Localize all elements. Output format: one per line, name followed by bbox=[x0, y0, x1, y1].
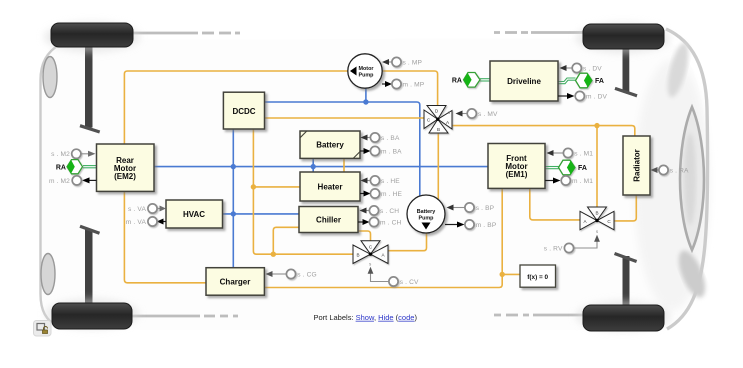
junction orange radiator line bbox=[594, 123, 599, 128]
svg-text:Radiator: Radiator bbox=[633, 149, 642, 181]
wire orange DCDC to 4-way valve bbox=[265, 117, 425, 119]
port RA rear hexagon bbox=[56, 160, 83, 174]
svg-text:s . BP: s . BP bbox=[476, 205, 495, 212]
port s.RA bbox=[651, 165, 690, 174]
suspension strut BL bbox=[80, 226, 100, 303]
port s.BA bbox=[361, 133, 400, 142]
svg-text:Pump: Pump bbox=[419, 216, 435, 222]
svg-text:Motor: Motor bbox=[359, 66, 375, 72]
svg-text:s . MP: s . MP bbox=[403, 60, 423, 67]
wire orange branch down to right valve bbox=[596, 126, 598, 207]
wire blue HVAC to chiller bbox=[223, 213, 299, 215]
svg-text:m . CH: m . CH bbox=[380, 220, 402, 227]
svg-text:m . MP: m . MP bbox=[403, 82, 425, 89]
rear taillight lower bbox=[41, 254, 55, 295]
block Radiator bbox=[623, 136, 650, 195]
svg-text:s . RA: s . RA bbox=[670, 168, 689, 175]
block Charger bbox=[206, 268, 264, 296]
wire orange 4-way valve to radiator top bbox=[452, 126, 635, 136]
wire orange front motor to charger bbox=[264, 188, 502, 287]
svg-text:m . BA: m . BA bbox=[381, 149, 402, 156]
wire orange bottom valve B to DCDC bottom bbox=[253, 129, 353, 254]
wheel top-left bbox=[51, 23, 133, 47]
port s.HE bbox=[361, 176, 401, 185]
wire blue motor pump stub bbox=[365, 88, 367, 102]
svg-text:s . RV: s . RV bbox=[544, 246, 563, 253]
port m.M2 bbox=[49, 176, 97, 185]
port FA driveline hexagon bbox=[576, 73, 604, 88]
port s.CH bbox=[360, 206, 400, 215]
svg-text:Charger: Charger bbox=[220, 277, 251, 286]
block Rear Motor (EM2) bbox=[97, 144, 155, 191]
suspension strut TL bbox=[80, 45, 100, 132]
svg-text:Pump: Pump bbox=[359, 73, 375, 79]
wire green RA to rear motor bbox=[83, 166, 97, 168]
valve 3-way right (radiator) bbox=[580, 207, 614, 230]
radiator lens shape bbox=[680, 107, 704, 250]
suspension strut TR bbox=[615, 47, 637, 96]
port s.CV control bbox=[368, 261, 419, 286]
car left outline bbox=[41, 44, 61, 327]
svg-text:s . CH: s . CH bbox=[380, 208, 399, 215]
port m.DV bbox=[558, 91, 608, 100]
wire blue DCDC bottom to charger bbox=[232, 129, 234, 268]
wire green front motor to FA bbox=[545, 167, 559, 169]
port m.M1 bbox=[545, 176, 593, 185]
junction blue battery stub bbox=[311, 164, 316, 169]
wire orange heater left branch bbox=[253, 186, 300, 188]
block Heater bbox=[300, 172, 360, 201]
svg-text:Chiller: Chiller bbox=[316, 215, 341, 224]
block HVAC bbox=[166, 200, 223, 228]
wheel bottom-right bbox=[583, 305, 664, 331]
svg-text:Battery: Battery bbox=[417, 209, 436, 215]
svg-text:m . BP: m . BP bbox=[476, 222, 497, 229]
svg-text:m . HE: m . HE bbox=[381, 191, 403, 198]
wire orange chiller bottom to valve C bbox=[358, 231, 371, 241]
wire orange battery pump bottom to bottom valve bbox=[388, 233, 427, 251]
wheel bottom-left bbox=[52, 303, 132, 329]
front fender shading lower bbox=[673, 247, 710, 301]
port s.DV bbox=[560, 63, 603, 72]
block Driveline bbox=[490, 61, 558, 101]
wire orange chiller left branch bbox=[273, 227, 298, 254]
block Motor Pump bbox=[348, 54, 382, 88]
wire orange 4-way valve bottom to battery pump bbox=[437, 133, 439, 199]
rear taillight upper bbox=[43, 57, 57, 98]
svg-text:RA: RA bbox=[56, 165, 66, 172]
svg-text:s . HE: s . HE bbox=[381, 178, 400, 185]
front axle shaft line bbox=[130, 31, 583, 34]
svg-text:m . VA: m . VA bbox=[126, 219, 147, 226]
svg-text:s . BA: s . BA bbox=[381, 135, 400, 142]
port m.VA bbox=[126, 217, 166, 226]
wire blue DCDC to pumps bbox=[265, 102, 420, 196]
port RA driveline hexagon bbox=[452, 73, 480, 88]
block Solver f(x)=0 bbox=[520, 265, 556, 287]
wire orange motor pump right to valve top bbox=[382, 71, 438, 106]
junction orange chiller branch bbox=[271, 252, 276, 257]
svg-text:B: B bbox=[356, 253, 359, 258]
svg-text:s . CG: s . CG bbox=[297, 272, 317, 279]
block Chiller bbox=[299, 207, 358, 233]
valve 3-way bottom (chiller) bbox=[353, 241, 388, 264]
car body interior wash bbox=[40, 38, 710, 330]
block DCDC bbox=[223, 92, 264, 129]
port m.BP bbox=[445, 220, 497, 229]
svg-text:m . M2: m . M2 bbox=[49, 178, 70, 185]
svg-text:Port Labels: Show, Hide (code): Port Labels: Show, Hide (code) bbox=[314, 313, 418, 322]
svg-text:B: B bbox=[437, 127, 440, 132]
wire orange radiator bottom to right valve C bbox=[614, 195, 637, 221]
junction blue motor pump stub bbox=[363, 99, 368, 104]
svg-text:Heater: Heater bbox=[318, 182, 343, 191]
port s.CG bbox=[266, 269, 317, 278]
suspension strut BR bbox=[615, 254, 637, 306]
svg-text:m . M1: m . M1 bbox=[572, 178, 593, 185]
svg-text:FA: FA bbox=[595, 78, 604, 85]
library link badge bbox=[34, 321, 52, 337]
block Battery Pump bbox=[407, 195, 445, 233]
port m.MP bbox=[382, 79, 425, 88]
svg-text:m . DV: m . DV bbox=[586, 94, 608, 101]
svg-text:(EM1): (EM1) bbox=[506, 170, 528, 179]
junction blue at DCDC column / main bus bbox=[231, 164, 236, 169]
svg-text:s . MV: s . MV bbox=[478, 111, 498, 118]
port m.CH bbox=[358, 217, 402, 226]
junction orange heater branch bbox=[251, 184, 256, 189]
wire green driveline to FA bbox=[558, 78, 576, 84]
svg-text:s . DV: s . DV bbox=[583, 66, 602, 73]
wire blue battery-heater stub bbox=[312, 158, 314, 172]
svg-text:s . M2: s . M2 bbox=[51, 151, 70, 158]
svg-text:f(x) = 0: f(x) = 0 bbox=[527, 274, 548, 281]
wire green RA to driveline bbox=[480, 79, 490, 81]
wire blue main electrical bus bbox=[154, 166, 488, 168]
svg-text:FA: FA bbox=[578, 165, 587, 172]
block Battery bbox=[300, 131, 360, 158]
wheel top-right bbox=[583, 24, 664, 49]
wire orange motor pump left loop to charger bbox=[124, 71, 348, 283]
junction orange solver stub bbox=[500, 272, 505, 277]
wire orange battery to heater bbox=[343, 158, 345, 172]
svg-text:s . VA: s . VA bbox=[128, 206, 146, 213]
block Front Motor (EM1) bbox=[488, 144, 545, 189]
port s.M1 bbox=[547, 148, 594, 157]
svg-text:s . M1: s . M1 bbox=[574, 151, 593, 158]
port m.HE bbox=[360, 189, 403, 198]
wheel shadow halos bbox=[44, 22, 670, 331]
front fender shading upper bbox=[663, 41, 692, 99]
svg-text:B: B bbox=[595, 211, 598, 216]
rear axle shaft line bbox=[130, 315, 583, 316]
port s.M2 bbox=[51, 149, 95, 158]
port s.RV control bbox=[544, 229, 600, 253]
port s.MP bbox=[382, 57, 423, 66]
svg-text:Battery: Battery bbox=[316, 141, 344, 150]
svg-text:RA: RA bbox=[452, 78, 462, 85]
svg-text:s . CV: s . CV bbox=[400, 279, 419, 286]
svg-text:DCDC: DCDC bbox=[232, 107, 255, 116]
car right outline bbox=[666, 29, 708, 329]
port s.MV bbox=[448, 109, 498, 118]
junction blue HVAC line bbox=[231, 211, 236, 216]
port s.BP bbox=[447, 203, 495, 212]
port m.BA bbox=[360, 146, 402, 155]
port FA front hexagon bbox=[559, 160, 587, 175]
svg-text:Driveline: Driveline bbox=[507, 77, 541, 86]
valve 4-way (motor loop) bbox=[424, 106, 452, 134]
svg-text:HVAC: HVAC bbox=[183, 210, 205, 219]
wire orange front motor to right valve A bbox=[530, 188, 581, 220]
port s.VA bbox=[128, 204, 166, 213]
svg-text:(EM2): (EM2) bbox=[114, 172, 136, 181]
wire orange stub to solver block bbox=[502, 273, 520, 275]
